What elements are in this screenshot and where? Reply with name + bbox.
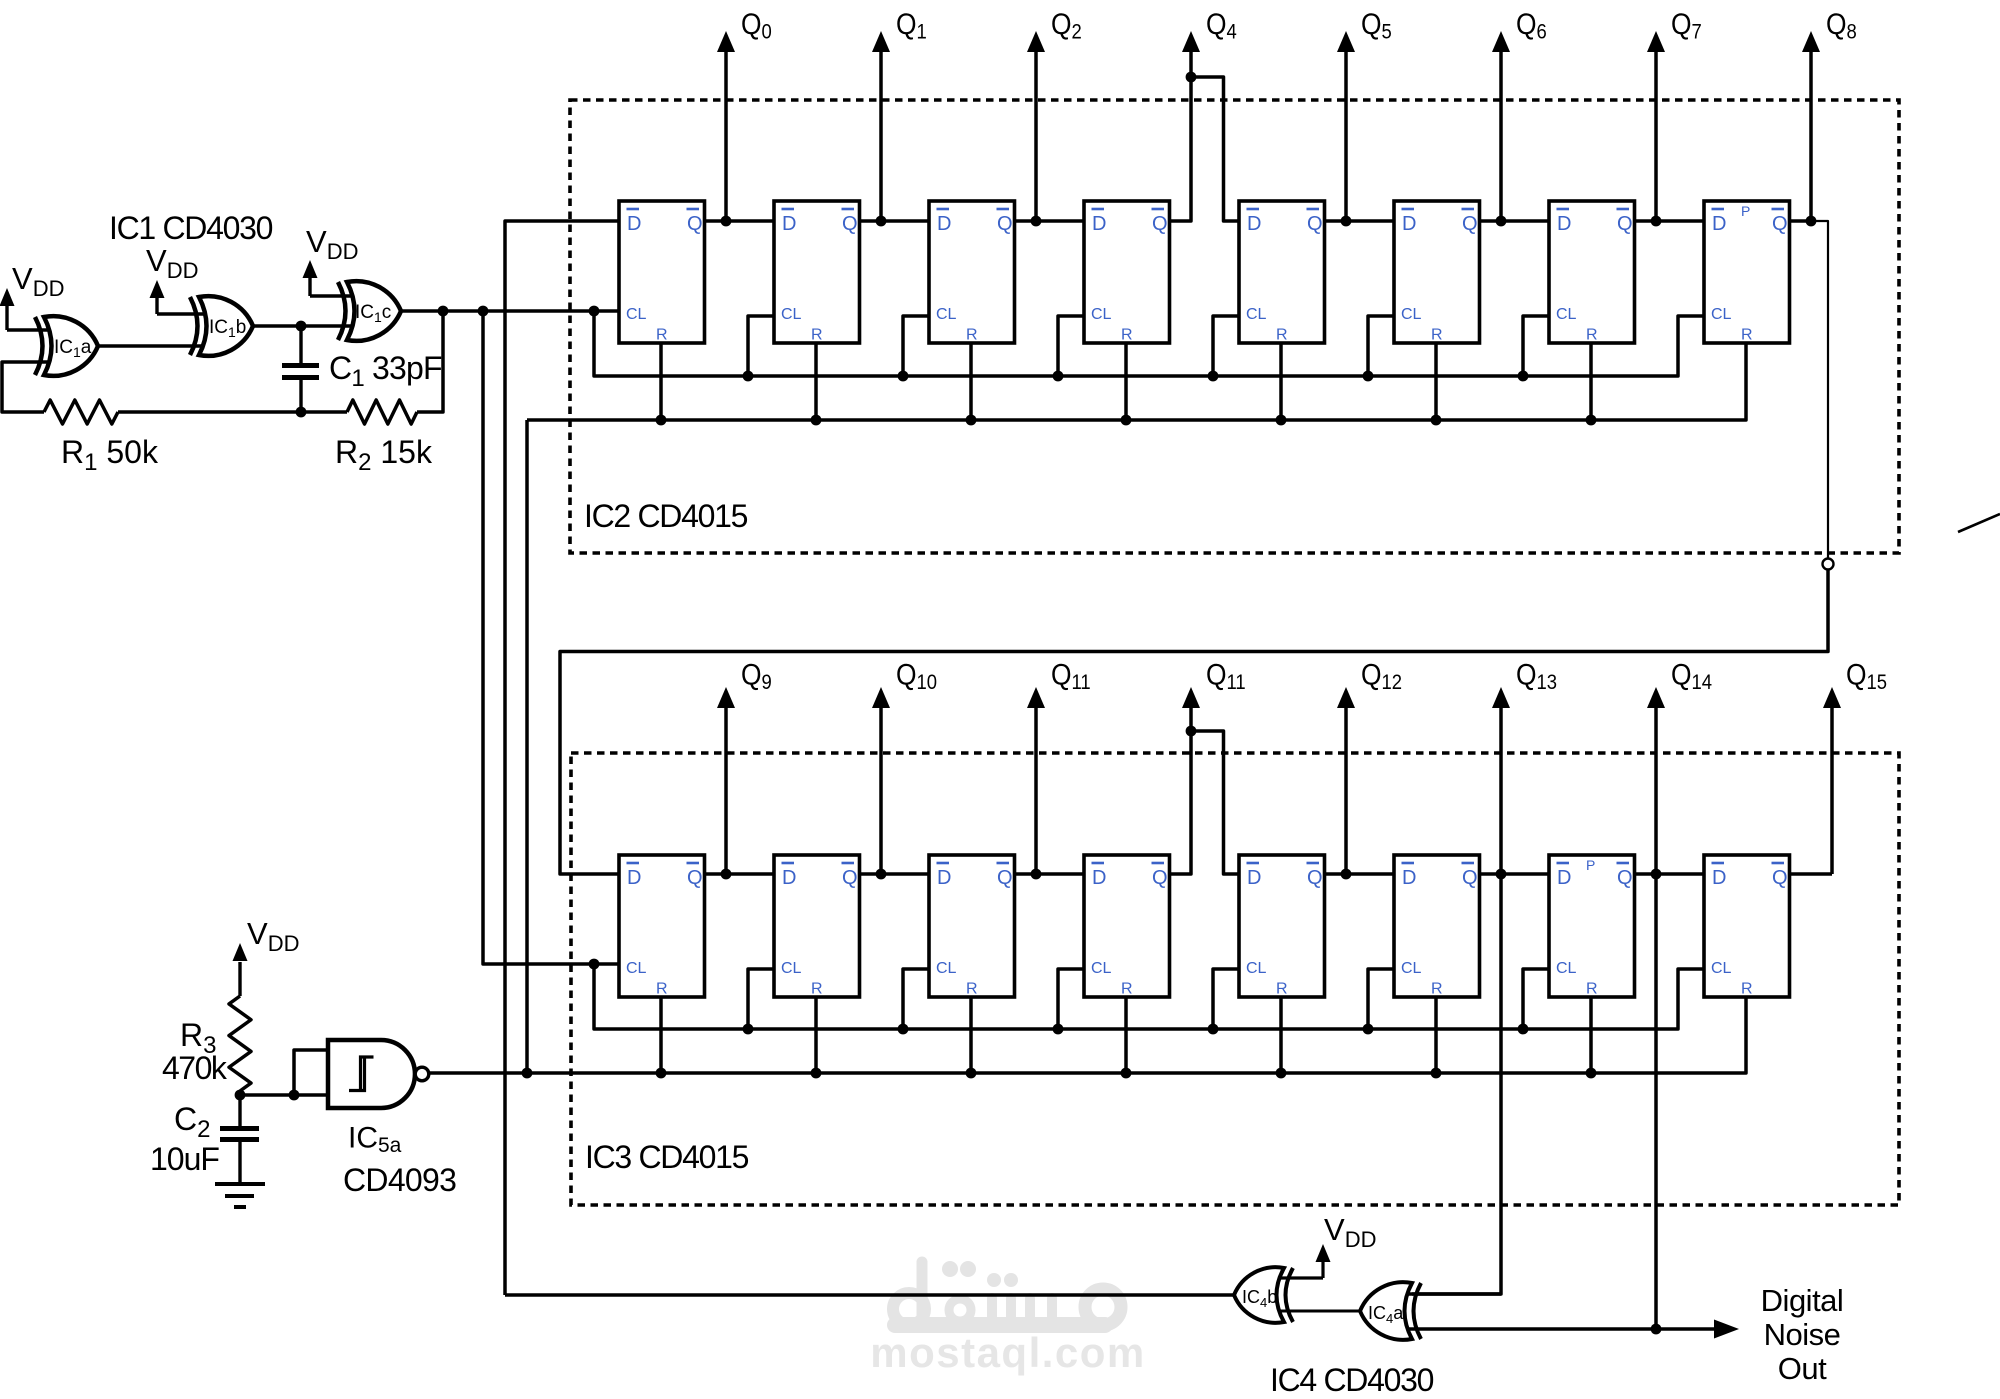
xor gate IC4a (mirrored) bbox=[1360, 1282, 1421, 1340]
label Q6 bbox=[1516, 6, 1547, 43]
wire IC1b output to IC1c bbox=[253, 324, 355, 328]
svg-text:CL: CL bbox=[936, 306, 957, 323]
terminal circle on Q8 feedback at box edge bbox=[1823, 559, 1834, 570]
junction CL bus FF3 row2 bbox=[898, 1024, 909, 1035]
svg-text:D: D bbox=[1092, 213, 1106, 235]
svg-text:IC4b: IC4b bbox=[1242, 1287, 1277, 1310]
svg-text:IC1a: IC1a bbox=[54, 337, 92, 360]
svg-text:D: D bbox=[782, 213, 796, 235]
svg-text:Q: Q bbox=[1307, 867, 1323, 889]
label 470k bbox=[162, 1050, 228, 1086]
junction CL bus FF2 row2 bbox=[743, 1024, 754, 1035]
svg-text:Noise: Noise bbox=[1764, 1317, 1841, 1352]
label IC1a bbox=[54, 337, 92, 360]
wire Q0 to D of next stage (row1) bbox=[705, 219, 775, 223]
wire R stub FF2 row1 bbox=[814, 343, 818, 420]
label IC2 CD4015 bbox=[584, 498, 748, 534]
junction R bus FF3 row1 bbox=[966, 415, 977, 426]
svg-text:10uF: 10uF bbox=[150, 1141, 219, 1177]
junction Q4 jog bbox=[1186, 72, 1197, 83]
svg-text:IC3 CD4015: IC3 CD4015 bbox=[585, 1139, 749, 1175]
label C1 33pF bbox=[329, 350, 442, 392]
wire Q6 to D of next stage (row1) bbox=[1635, 219, 1705, 223]
wire Q11 to D of next stage (row2) bbox=[1015, 872, 1085, 876]
junction reset line row1 drop bbox=[522, 1068, 533, 1079]
wire junction to IC5a inputs bbox=[240, 1093, 336, 1096]
svg-text:R: R bbox=[1431, 327, 1443, 344]
arrow digital noise out bbox=[1714, 1320, 1739, 1339]
node Q8 output arrow (row1) bbox=[1802, 31, 1820, 226]
svg-text:CL: CL bbox=[936, 960, 957, 977]
node Q2 output arrow (row1) bbox=[1027, 31, 1045, 226]
wire CL stub FF4 row1 bbox=[1058, 316, 1084, 376]
power VDD for IC1a bbox=[0, 288, 52, 330]
flip-flop FF2 of IC3 (row 2) bbox=[774, 855, 860, 998]
wire R stub FF1 row2 bbox=[659, 997, 663, 1073]
power VDD for IC4b bbox=[1280, 1244, 1331, 1278]
label Q11 (row2) bbox=[1206, 657, 1246, 694]
wire IC4a output to IC4b input bbox=[1278, 1310, 1360, 1313]
flip-flop FF8 of IC2 (row 1) bbox=[1704, 201, 1790, 344]
junction reset line FF3 row2 bbox=[966, 1068, 977, 1079]
node Q11 output arrow (row2) bbox=[1027, 687, 1045, 879]
junction CL bus FF2 row1 bbox=[743, 371, 754, 382]
node Q10 output arrow (row2) bbox=[872, 687, 890, 879]
svg-text:CL: CL bbox=[1711, 306, 1732, 323]
svg-text:D: D bbox=[1712, 213, 1726, 235]
node Q11 output arrow (row2) bbox=[1182, 687, 1200, 731]
label CD4093 bbox=[343, 1162, 456, 1198]
junction CL bus FF5 row2 bbox=[1208, 1024, 1219, 1035]
svg-text:CL: CL bbox=[1401, 960, 1422, 977]
svg-text:IC1c: IC1c bbox=[355, 302, 391, 325]
wire CL stub FF7 row1 bbox=[1523, 316, 1549, 376]
svg-text:Q: Q bbox=[1462, 213, 1478, 235]
svg-text:R: R bbox=[656, 981, 668, 998]
svg-text:Q: Q bbox=[1772, 213, 1788, 235]
label VDD (R3) bbox=[247, 916, 299, 956]
svg-text:D: D bbox=[1557, 213, 1571, 235]
svg-text:Q: Q bbox=[997, 867, 1013, 889]
label Q0 bbox=[741, 6, 772, 43]
wire R stub FF6 row1 bbox=[1434, 343, 1438, 420]
flip-flop FF5 of IC2 (row 1) bbox=[1239, 201, 1325, 344]
wire R stub FF4 row1 bbox=[1124, 343, 1128, 420]
capacitor C1 bbox=[282, 326, 319, 412]
wire CL stub FF7 row2 bbox=[1523, 969, 1549, 1029]
wire CL stub FF3 row1 bbox=[903, 316, 929, 376]
svg-text:Q: Q bbox=[842, 867, 858, 889]
wire R stub FF5 row2 bbox=[1279, 997, 1283, 1073]
node Q9 output arrow (row2) bbox=[717, 687, 735, 879]
power VDD for IC1b bbox=[150, 280, 208, 314]
resistor R2 bbox=[347, 400, 417, 424]
ground bbox=[215, 1184, 265, 1207]
junction CL bus FF4 row1 bbox=[1053, 371, 1064, 382]
svg-text:R: R bbox=[656, 327, 668, 344]
svg-text:Digital: Digital bbox=[1761, 1283, 1844, 1318]
wire Q9 to D of next stage (row2) bbox=[705, 872, 775, 876]
label VDD (IC1b) bbox=[146, 243, 198, 283]
resistor R3 bbox=[229, 996, 251, 1091]
label Q9 (row2) bbox=[741, 657, 772, 694]
svg-text:D: D bbox=[1402, 213, 1416, 235]
label Q8 bbox=[1826, 6, 1857, 43]
label IC5a bbox=[348, 1122, 402, 1158]
wire CL stub FF3 row2 bbox=[903, 969, 929, 1029]
wire feedback to D of row1 FF1 (node from IC4b output) bbox=[505, 221, 619, 1295]
wire R stub FF4 row2 bbox=[1124, 997, 1128, 1073]
svg-text:R2 15k: R2 15k bbox=[335, 434, 433, 476]
junction noise line / Q14 bbox=[1651, 1324, 1662, 1335]
label Q1 bbox=[896, 6, 927, 43]
wire row2 CL bus bbox=[594, 964, 1704, 1029]
label IC3 CD4015 bbox=[585, 1139, 749, 1175]
label C2 bbox=[174, 1101, 210, 1143]
nand gate IC5a (schmitt) bbox=[328, 1040, 429, 1108]
label Q11 (row2) bbox=[1051, 657, 1091, 694]
wire Q13 tap down to IC4a input bbox=[1412, 874, 1501, 1294]
wire reset line from IC5a to row2 R pins bbox=[429, 997, 1747, 1073]
wire IC1a lower input feedback bbox=[2, 362, 52, 412]
svg-text:Q: Q bbox=[997, 213, 1013, 235]
label R3 bbox=[180, 1017, 216, 1059]
flip-flop FF7 of IC3 (row 2) bbox=[1549, 855, 1635, 998]
svg-text:R: R bbox=[811, 327, 823, 344]
svg-text:D: D bbox=[782, 867, 796, 889]
junction CL bus FF6 row2 bbox=[1363, 1024, 1374, 1035]
wire Q15 to D of next stage (row2) bbox=[1635, 872, 1705, 876]
label R1 50k bbox=[61, 434, 159, 476]
svg-text:Q: Q bbox=[1772, 867, 1788, 889]
wire noise output line (Q14 tap) bbox=[1404, 1327, 1715, 1331]
junction clock/row2-clock drop bbox=[478, 306, 489, 317]
svg-text:Q: Q bbox=[1462, 867, 1478, 889]
wire CL stub FF6 row2 bbox=[1368, 969, 1394, 1029]
wire clock line IC1c output to row1 CL bbox=[401, 309, 619, 313]
flip-flop FF3 of IC3 (row 2) bbox=[929, 855, 1015, 998]
svg-text:R: R bbox=[1431, 981, 1443, 998]
label Q10 (row2) bbox=[896, 657, 937, 694]
svg-text:Out: Out bbox=[1778, 1351, 1827, 1386]
wire Q12 jog over dashed border (row2) bbox=[1170, 731, 1240, 874]
flip-flop FF8 of IC3 (row 2) bbox=[1704, 855, 1790, 998]
wire R stub FF5 row1 bbox=[1279, 343, 1283, 420]
xor gate IC1b bbox=[190, 296, 253, 356]
junction reset line FF2 row2 bbox=[811, 1068, 822, 1079]
junction R bus FF6 row1 bbox=[1431, 415, 1442, 426]
label VDD (IC4b) bbox=[1324, 1212, 1376, 1252]
svg-text:R: R bbox=[1586, 327, 1598, 344]
svg-text:CL: CL bbox=[781, 960, 802, 977]
svg-text:D: D bbox=[627, 867, 641, 889]
svg-text:D: D bbox=[1247, 213, 1261, 235]
svg-text:P: P bbox=[1741, 203, 1750, 219]
svg-text:R: R bbox=[811, 981, 823, 998]
node Q6 output arrow (row1) bbox=[1492, 31, 1510, 226]
wire R stub FF3 row1 bbox=[969, 343, 973, 420]
junction CL bus FF7 row1 bbox=[1518, 371, 1529, 382]
wire R3 to C2 junction bbox=[238, 1091, 241, 1129]
svg-text:R: R bbox=[1276, 327, 1288, 344]
wire CL stub FF2 row2 bbox=[748, 969, 774, 1029]
wire Q4 to D of next stage (row1) bbox=[1325, 219, 1395, 223]
label Digital Noise Out bbox=[1761, 1283, 1844, 1386]
svg-text:R: R bbox=[1586, 981, 1598, 998]
wire row1 CL bus bbox=[594, 311, 1704, 376]
junction R bus FF1 row1 bbox=[656, 415, 667, 426]
label IC4a bbox=[1368, 1303, 1404, 1326]
wire R stub FF3 row2 bbox=[969, 997, 973, 1073]
svg-text:IC2 CD4015: IC2 CD4015 bbox=[584, 498, 748, 534]
label IC1b bbox=[209, 317, 246, 340]
xor gate IC1a bbox=[35, 316, 98, 376]
junction R bus FF2 row1 bbox=[811, 415, 822, 426]
wire Q1 to D of next stage (row1) bbox=[860, 219, 930, 223]
power VDD for R3 bbox=[233, 943, 248, 996]
wire IC4a upper input from Q13 bbox=[1404, 1292, 1501, 1296]
svg-text:R: R bbox=[966, 981, 978, 998]
svg-text:D: D bbox=[1557, 867, 1571, 889]
wire Q5 to D of next stage (row1) bbox=[1480, 219, 1550, 223]
node Q12 output arrow (row2) bbox=[1337, 687, 1355, 879]
flip-flop FF3 of IC2 (row 1) bbox=[929, 201, 1015, 344]
wire row1 R bus bbox=[527, 343, 1746, 420]
svg-text:R: R bbox=[1121, 327, 1133, 344]
flip-flop FF2 of IC2 (row 1) bbox=[774, 201, 860, 344]
junction CL bus FF4 row2 bbox=[1053, 1024, 1064, 1035]
node Q1 output arrow (row1) bbox=[872, 31, 890, 226]
flip-flop FF4 of IC2 (row 1) bbox=[1084, 201, 1170, 344]
svg-text:Q: Q bbox=[1307, 213, 1323, 235]
svg-text:CD4093: CD4093 bbox=[343, 1162, 456, 1198]
flip-flop FF6 of IC2 (row 1) bbox=[1394, 201, 1480, 344]
wire R stub FF1 row1 bbox=[659, 343, 663, 420]
label Q5 bbox=[1361, 6, 1392, 43]
junction reset line FF7 row2 bbox=[1586, 1068, 1597, 1079]
flip-flop FF1 of IC3 (row 2) bbox=[619, 855, 705, 998]
svg-text:R: R bbox=[1121, 981, 1133, 998]
node Q7 output arrow (row1) bbox=[1647, 31, 1665, 226]
label Q12 (row2) bbox=[1361, 657, 1402, 694]
junction reset line FF6 row2 bbox=[1431, 1068, 1442, 1079]
label Q2 bbox=[1051, 6, 1082, 43]
label IC4 CD4030 bbox=[1270, 1362, 1434, 1398]
node Q15 output arrow (row2) bbox=[1823, 687, 1841, 874]
svg-text:Q: Q bbox=[687, 867, 703, 889]
svg-text:C1 33pF: C1 33pF bbox=[329, 350, 442, 392]
wire CL stub FF4 row2 bbox=[1058, 969, 1084, 1029]
label IC1c bbox=[355, 302, 391, 325]
svg-text:Q: Q bbox=[1152, 213, 1168, 235]
wire R stub FF6 row2 bbox=[1434, 997, 1438, 1073]
wire IC5a upper input stub bbox=[294, 1050, 336, 1095]
wire CL stub FF2 row1 bbox=[748, 316, 774, 376]
wire Q8 feedback thin segment bbox=[1811, 221, 1828, 559]
wire CL stub FF5 row2 bbox=[1213, 969, 1239, 1029]
svg-text:CL: CL bbox=[1711, 960, 1732, 977]
flip-flop FF5 of IC3 (row 2) bbox=[1239, 855, 1325, 998]
wire R stub FF7 row1 bbox=[1589, 343, 1593, 420]
xor gate IC1c bbox=[338, 281, 401, 341]
xor gate IC4b (mirrored) bbox=[1234, 1267, 1293, 1323]
wire Q15 output stub bbox=[1790, 872, 1833, 876]
junction row2 clock/CL bus bbox=[589, 959, 600, 970]
junction clock/R2 bbox=[438, 306, 449, 317]
svg-text:CL: CL bbox=[1091, 960, 1112, 977]
junction reset line FF1 row2 bbox=[656, 1068, 667, 1079]
svg-text:IC1b: IC1b bbox=[209, 317, 246, 340]
wire R stub FF2 row2 bbox=[814, 997, 818, 1073]
IC3 CD4015 dashed package box bbox=[571, 753, 1899, 1205]
capacitor C2 bbox=[220, 1129, 259, 1185]
wire Q4 jog over dashed border (row1) bbox=[1170, 77, 1240, 221]
junction clock/row1 CL bus bbox=[589, 306, 600, 317]
svg-text:P: P bbox=[1586, 857, 1595, 873]
flip-flop FF4 of IC3 (row 2) bbox=[1084, 855, 1170, 998]
junction CL bus FF3 row1 bbox=[898, 371, 909, 382]
svg-text:CL: CL bbox=[1401, 306, 1422, 323]
svg-text:CL: CL bbox=[1091, 306, 1112, 323]
wire row1 R bus drop to reset line bbox=[525, 420, 529, 1073]
wire R stub FF7 row2 bbox=[1589, 997, 1593, 1073]
svg-text:IC1 CD4030: IC1 CD4030 bbox=[109, 210, 273, 246]
svg-text:CL: CL bbox=[626, 960, 647, 977]
svg-text:R: R bbox=[1741, 981, 1753, 998]
junction reset line FF5 row2 bbox=[1276, 1068, 1287, 1079]
wire Q10 to D of next stage (row2) bbox=[860, 872, 930, 876]
flip-flop FF7 of IC2 (row 1) bbox=[1549, 201, 1635, 344]
svg-text:D: D bbox=[937, 213, 951, 235]
node Q0 output arrow (row1) bbox=[717, 31, 735, 226]
svg-text:D: D bbox=[627, 213, 641, 235]
label Q14 (row2) bbox=[1671, 657, 1712, 694]
svg-text:IC4 CD4030: IC4 CD4030 bbox=[1270, 1362, 1434, 1398]
wire junction to R2 bbox=[301, 410, 347, 414]
stray diagonal mark bbox=[1958, 514, 2000, 532]
junction IC1b output / C1 bbox=[296, 321, 307, 332]
node Q5 output arrow (row1) bbox=[1337, 31, 1355, 226]
svg-text:D: D bbox=[1092, 867, 1106, 889]
resistor R1 bbox=[44, 400, 118, 424]
junction R1/R2/C1 bbox=[296, 407, 307, 418]
junction reset line FF4 row2 bbox=[1121, 1068, 1132, 1079]
wire Q13 to D of next stage (row2) bbox=[1325, 872, 1395, 876]
svg-text:D: D bbox=[1712, 867, 1726, 889]
label VDD (IC1a) bbox=[12, 261, 64, 301]
wire clock drop to row2 CL bbox=[483, 311, 619, 964]
svg-text:470k: 470k bbox=[162, 1050, 228, 1086]
junction IC5a input stub bbox=[289, 1090, 300, 1101]
label R2 15k bbox=[335, 434, 433, 476]
power VDD for IC1c bbox=[303, 260, 356, 296]
wire Q8 output stub bbox=[1790, 219, 1812, 223]
svg-text:CL: CL bbox=[1246, 960, 1267, 977]
wire R1 to junction bbox=[118, 410, 301, 414]
label IC4b bbox=[1242, 1287, 1277, 1310]
label Q7 bbox=[1671, 6, 1702, 43]
svg-text:R: R bbox=[1276, 981, 1288, 998]
IC2 CD4015 dashed package box bbox=[570, 100, 1899, 553]
label VDD (IC1c) bbox=[306, 224, 358, 264]
watermark mostaql.com bbox=[870, 1261, 1146, 1376]
svg-text:CL: CL bbox=[1556, 960, 1577, 977]
wire CL stub FF5 row1 bbox=[1213, 316, 1239, 376]
svg-text:D: D bbox=[1402, 867, 1416, 889]
node Q13 output arrow (row2) bbox=[1492, 687, 1510, 879]
wire Q8 feedback to row2 FF1 D bbox=[560, 570, 1828, 875]
label IC1 CD4030 bbox=[109, 210, 273, 246]
svg-text:CL: CL bbox=[626, 306, 647, 323]
flip-flop FF1 of IC2 (row 1) bbox=[619, 201, 705, 344]
svg-text:mostaql.com: mostaql.com bbox=[870, 1329, 1146, 1376]
label Q15 (row2) bbox=[1846, 657, 1887, 694]
junction R bus FF5 row1 bbox=[1276, 415, 1287, 426]
node Q4 output arrow (row1) bbox=[1182, 31, 1200, 77]
junction R3/C2/IC5a bbox=[235, 1090, 246, 1101]
wire CL stub FF6 row1 bbox=[1368, 316, 1394, 376]
svg-text:Q: Q bbox=[1617, 213, 1633, 235]
svg-text:Q: Q bbox=[1152, 867, 1168, 889]
svg-text:Q: Q bbox=[842, 213, 858, 235]
wire IC1a output to IC1b bbox=[98, 344, 207, 348]
junction CL bus FF6 row1 bbox=[1363, 371, 1374, 382]
svg-text:CL: CL bbox=[1246, 306, 1267, 323]
wire Q14 to D of next stage (row2) bbox=[1480, 872, 1550, 876]
svg-text:Q: Q bbox=[687, 213, 703, 235]
label 10uF bbox=[150, 1141, 219, 1177]
svg-text:D: D bbox=[937, 867, 951, 889]
wire IC4b output feedback line bbox=[505, 1293, 1234, 1297]
svg-text:D: D bbox=[1247, 867, 1261, 889]
junction CL bus FF7 row2 bbox=[1518, 1024, 1529, 1035]
flip-flop FF6 of IC3 (row 2) bbox=[1394, 855, 1480, 998]
svg-text:CL: CL bbox=[1556, 306, 1577, 323]
wire R2 to clock node bbox=[417, 311, 443, 412]
wire Q14 tap down to noise line bbox=[1654, 874, 1658, 1329]
svg-text:R: R bbox=[966, 327, 978, 344]
junction R bus FF7 row1 bbox=[1586, 415, 1597, 426]
junction Q12 jog bbox=[1186, 726, 1197, 737]
svg-text:CL: CL bbox=[781, 306, 802, 323]
junction R bus FF4 row1 bbox=[1121, 415, 1132, 426]
svg-text:Q: Q bbox=[1617, 867, 1633, 889]
node Q14 output arrow (row2) bbox=[1647, 687, 1665, 879]
label Q13 (row2) bbox=[1516, 657, 1557, 694]
svg-text:R: R bbox=[1741, 327, 1753, 344]
junction CL bus FF5 row1 bbox=[1208, 371, 1219, 382]
svg-text:R1 50k: R1 50k bbox=[61, 434, 159, 476]
label Q4 bbox=[1206, 6, 1237, 43]
wire Q2 to D of next stage (row1) bbox=[1015, 219, 1085, 223]
